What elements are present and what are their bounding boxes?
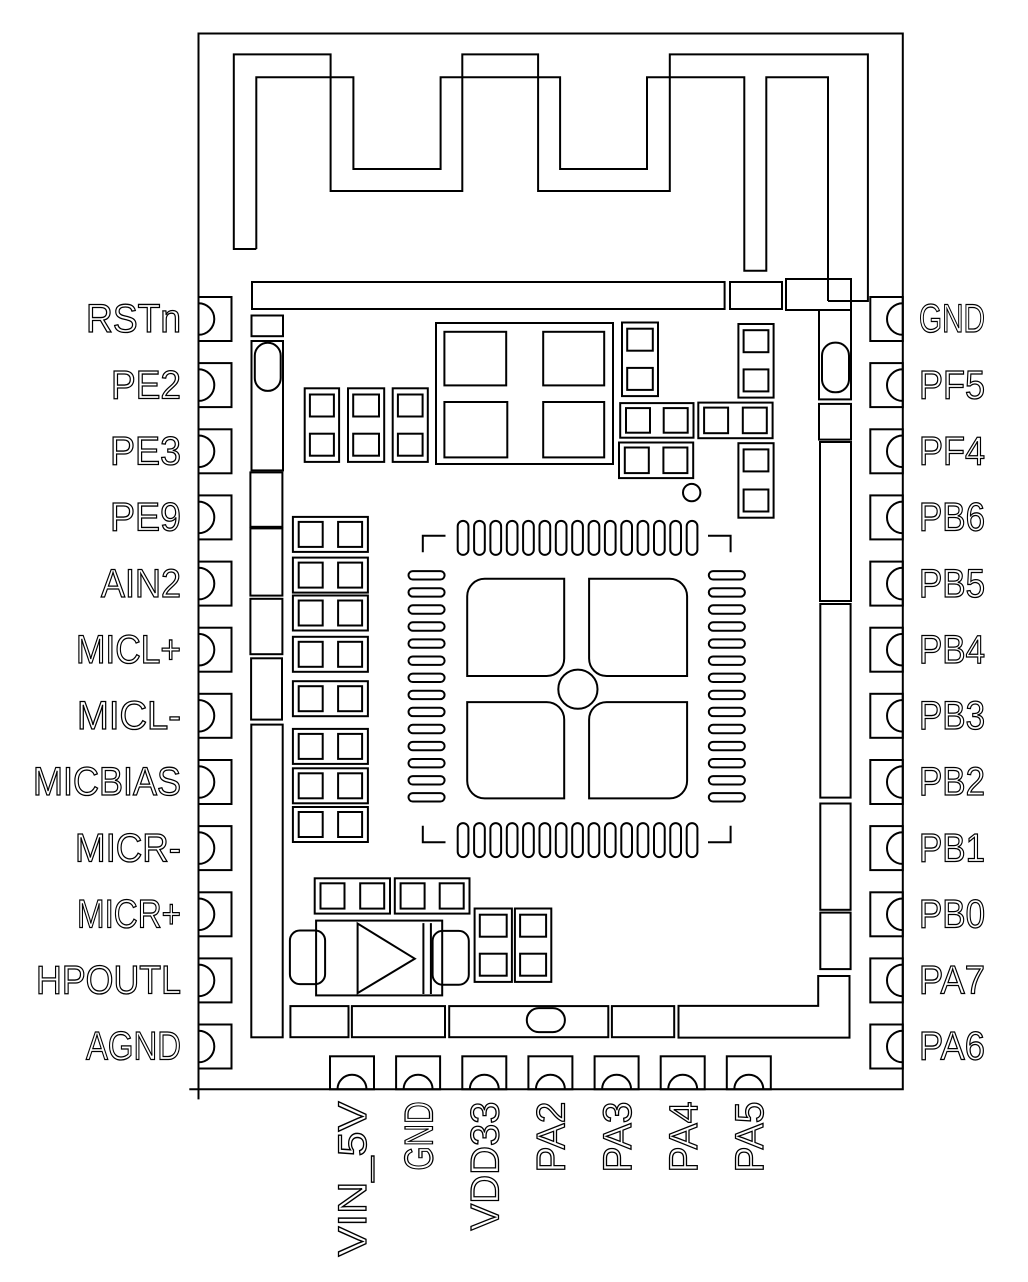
svg-text:PA4: PA4 bbox=[662, 1102, 706, 1173]
svg-text:MICL+: MICL+ bbox=[76, 628, 181, 672]
pad MICR- (left edge castellation) bbox=[199, 826, 232, 870]
svg-text:AGND: AGND bbox=[86, 1025, 181, 1069]
svg-text:PB3: PB3 bbox=[919, 694, 985, 738]
diode D1 cathode bar 2 bbox=[430, 923, 432, 994]
chip U1 left pin column (14 pads) bbox=[409, 571, 445, 801]
pad PB2 (right edge castellation) bbox=[870, 760, 903, 804]
bottom strip segment 2 bbox=[352, 1006, 445, 1037]
svg-text:GND: GND bbox=[919, 297, 985, 341]
left ground column segment 7 bbox=[251, 725, 282, 1038]
capacitor C3 bbox=[393, 388, 428, 462]
top ground plane strip bbox=[252, 282, 725, 309]
right column segment 3 bbox=[820, 604, 850, 798]
diode D1 cathode terminal bbox=[433, 931, 469, 985]
capacitor C10 bbox=[293, 637, 368, 672]
pad VIN_5V (bottom edge castellation) bbox=[330, 1056, 374, 1089]
pad PE9 (left edge castellation) bbox=[199, 495, 232, 539]
pad PB5 (right edge castellation) bbox=[870, 562, 903, 606]
left ground column segment 2 with via bbox=[252, 341, 284, 470]
bottom strip segment 4 bbox=[612, 1006, 674, 1037]
svg-text:PA7: PA7 bbox=[919, 959, 985, 1003]
capacitor C13 bbox=[293, 768, 368, 803]
diode D1 anode terminal bbox=[290, 931, 325, 985]
svg-text:PF4: PF4 bbox=[919, 430, 985, 474]
right column segment 2 bbox=[820, 442, 851, 601]
svg-text:MICL-: MICL- bbox=[77, 694, 181, 738]
pad PB0 (right edge castellation) bbox=[870, 892, 903, 936]
svg-text:PB1: PB1 bbox=[919, 826, 985, 870]
pad PA4 (bottom edge castellation) bbox=[661, 1056, 705, 1089]
capacitor C2 bbox=[348, 388, 384, 462]
pad AGND (left edge castellation) bbox=[199, 1025, 232, 1069]
pad PA5 (bottom edge castellation) bbox=[727, 1056, 771, 1089]
svg-text:GND: GND bbox=[397, 1102, 441, 1171]
pad PF4 (right edge castellation) bbox=[870, 429, 903, 473]
svg-text:RSTn: RSTn bbox=[86, 297, 181, 341]
fiducial / test point bbox=[683, 484, 700, 501]
capacitor C16 bbox=[395, 878, 470, 913]
right column segment 5 bbox=[820, 913, 850, 970]
svg-text:PE9: PE9 bbox=[110, 496, 181, 540]
pad PB3 (right edge castellation) bbox=[870, 694, 903, 738]
svg-text:MICR-: MICR- bbox=[75, 826, 181, 870]
left ground column segment 6 bbox=[251, 658, 282, 719]
diode D1 body bbox=[316, 921, 442, 996]
capacitor C9 bbox=[293, 596, 368, 631]
right column L-shaped ground pour bbox=[679, 976, 850, 1038]
pad MICL+ (left edge castellation) bbox=[199, 628, 232, 672]
svg-text:PF5: PF5 bbox=[919, 363, 985, 407]
svg-text:VDD33: VDD33 bbox=[464, 1102, 508, 1231]
diode D1 cathode bar 1 bbox=[422, 923, 424, 994]
capacitor C6 bbox=[738, 443, 773, 518]
chip U1 thermal pad quadrant top-right bbox=[589, 579, 687, 676]
pad MICR+ (left edge castellation) bbox=[199, 892, 232, 936]
svg-text:PB4: PB4 bbox=[919, 628, 985, 672]
capacitor C17 bbox=[475, 909, 512, 982]
resistor R2 bbox=[698, 403, 772, 439]
svg-text:AIN2: AIN2 bbox=[101, 562, 181, 606]
left ground column segment 4 bbox=[250, 528, 282, 595]
pad GND (right edge castellation) bbox=[870, 297, 903, 341]
svg-text:PB5: PB5 bbox=[919, 562, 985, 606]
chip U1 thermal pad quadrant bottom-left bbox=[467, 702, 564, 798]
svg-text:PA5: PA5 bbox=[728, 1102, 772, 1173]
resistor R3 bbox=[619, 443, 693, 479]
pad RSTn (left edge castellation) bbox=[199, 297, 232, 341]
right column segment 1 bbox=[819, 404, 851, 440]
pad VDD33 (bottom edge castellation) bbox=[462, 1056, 506, 1089]
capacitor C12 bbox=[293, 729, 368, 764]
svg-text:MICBIAS: MICBIAS bbox=[33, 760, 181, 804]
chip U1 corner bracket top-right bbox=[708, 536, 731, 553]
capacitor C4 bbox=[622, 323, 658, 397]
pad PB4 (right edge castellation) bbox=[870, 628, 903, 672]
capacitor C18 bbox=[515, 909, 551, 982]
pad PF5 (right edge castellation) bbox=[870, 363, 903, 407]
svg-text:PA2: PA2 bbox=[530, 1102, 574, 1173]
top strip pad segment bbox=[730, 282, 782, 309]
chip U1 right pin column (14 pads) bbox=[709, 571, 745, 801]
capacitor C11 bbox=[293, 681, 368, 716]
module board outline bbox=[189, 34, 903, 1100]
antenna meander trace outer edge (wire) bbox=[234, 54, 868, 301]
capacitor C14 bbox=[293, 807, 368, 842]
antenna feed via pad (stadium) bbox=[819, 310, 851, 399]
left ground column segment 5 bbox=[250, 599, 282, 654]
capacitor C15 bbox=[315, 878, 390, 913]
pad HPOUTL (left edge castellation) bbox=[199, 958, 232, 1002]
pad PA6 (right edge castellation) bbox=[870, 1025, 903, 1069]
crystal X1 (4-pad component) bbox=[436, 323, 613, 464]
chip U1 corner bracket bottom-left bbox=[423, 826, 446, 843]
pad AIN2 (left edge castellation) bbox=[199, 562, 232, 606]
svg-text:PB0: PB0 bbox=[919, 893, 985, 937]
svg-text:MICR+: MICR+ bbox=[77, 893, 181, 937]
svg-text:PA3: PA3 bbox=[596, 1102, 640, 1173]
pad PA7 (right edge castellation) bbox=[870, 958, 903, 1002]
diode D1 triangle bbox=[358, 924, 415, 994]
pad PE3 (left edge castellation) bbox=[199, 429, 232, 473]
bottom strip segment 1 bbox=[290, 1006, 348, 1037]
svg-text:PE3: PE3 bbox=[110, 430, 181, 474]
chip U1 center via bbox=[558, 670, 597, 709]
capacitor C7 bbox=[293, 517, 368, 552]
svg-text:PB6: PB6 bbox=[919, 496, 985, 540]
pad PE2 (left edge castellation) bbox=[199, 363, 232, 407]
pad GND (bottom edge castellation) bbox=[396, 1056, 440, 1089]
capacitor C1 bbox=[305, 388, 339, 462]
left ground column segment 1 bbox=[252, 316, 284, 337]
pad PA2 (bottom edge castellation) bbox=[528, 1056, 572, 1089]
bottom strip segment 3 with via bbox=[449, 1006, 608, 1037]
antenna feed pad bbox=[786, 279, 851, 310]
chip U1 corner bracket top-left bbox=[423, 536, 446, 553]
svg-text:PA6: PA6 bbox=[919, 1025, 985, 1069]
chip U1 corner bracket bottom-right bbox=[708, 826, 731, 843]
resistor R1 bbox=[620, 403, 693, 438]
svg-text:VIN_5V: VIN_5V bbox=[331, 1101, 375, 1256]
chip U1 top pin row (15 pads) bbox=[458, 521, 698, 555]
chip U1 thermal pad quadrant top-left bbox=[467, 579, 564, 676]
antenna meander trace inner edge (wire) bbox=[256, 77, 828, 301]
chip U1 bottom pin row (15 pads) bbox=[458, 823, 698, 857]
pad MICBIAS (left edge castellation) bbox=[199, 760, 232, 804]
svg-text:HPOUTL: HPOUTL bbox=[36, 959, 181, 1003]
capacitor C5 bbox=[738, 324, 773, 398]
pad PB1 (right edge castellation) bbox=[870, 826, 903, 870]
pad PB6 (right edge castellation) bbox=[870, 495, 903, 539]
right column segment 4 bbox=[820, 804, 850, 910]
capacitor C8 bbox=[293, 558, 368, 593]
svg-text:PE2: PE2 bbox=[111, 363, 181, 407]
pad MICL- (left edge castellation) bbox=[199, 694, 232, 738]
chip U1 thermal pad quadrant bottom-right bbox=[589, 702, 687, 798]
left ground column segment 3 bbox=[250, 472, 282, 526]
pad PA3 (bottom edge castellation) bbox=[595, 1056, 639, 1089]
svg-text:PB2: PB2 bbox=[919, 760, 985, 804]
